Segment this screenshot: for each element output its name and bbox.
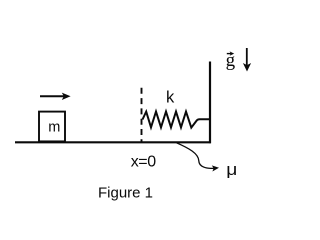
svg-text:m: m xyxy=(48,119,60,135)
svg-text:Figure 1: Figure 1 xyxy=(98,184,153,201)
velocity arrow above block xyxy=(40,93,71,100)
svg-text:k: k xyxy=(166,89,175,107)
dashed line at x=0 xyxy=(141,88,143,142)
wall xyxy=(209,62,211,144)
block m (box) xyxy=(39,112,65,142)
svg-text:μ: μ xyxy=(226,160,237,179)
gravity down arrow xyxy=(243,48,251,72)
svg-text:x=0: x=0 xyxy=(131,154,157,171)
curved arrow to friction label xyxy=(177,143,214,169)
spring k (zigzag) xyxy=(143,112,210,128)
floor (ground line) xyxy=(15,141,211,143)
